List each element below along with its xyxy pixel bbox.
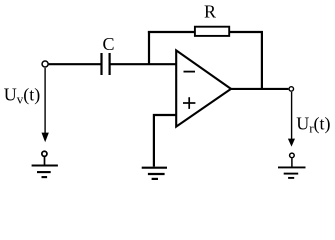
resistor R [195,27,229,36]
wire: feedback top horizontal left segment [148,31,195,33]
wire: output voltage arrow stem [291,92,293,140]
wire: feedback right vertical down to output node [261,31,263,89]
wire: feedback top horizontal right segment [230,31,264,33]
arrowhead (output voltage) [288,139,295,147]
op-amp non-inverting input marker (plus) [183,97,195,109]
svg-text:Uv(t): Uv(t) [4,85,41,107]
wire: input voltage arrow stem [44,68,46,134]
svg-text:R: R [204,1,216,21]
svg-text:C: C [103,34,115,54]
wire: capacitor to op-amp inverting input [111,63,177,65]
capacitor C [102,53,110,75]
wire: feedback left vertical from input node [148,31,150,64]
node: input terminal circle [42,61,48,67]
node: output terminal circle [289,87,294,92]
op-amp inverting input marker (minus) [184,71,196,73]
svg-text:Ur(t): Ur(t) [296,114,330,136]
op-amp U1 [176,50,231,126]
ground (op-amp + input) [142,168,167,179]
wire: non-inverting input to ground [154,115,176,167]
ground (output, with terminal circle) [278,153,306,178]
wire: input terminal to capacitor [49,63,101,65]
arrowhead (input voltage) [42,133,49,143]
ground (input, with terminal circle) [32,151,58,177]
wire: op-amp output to output terminal [231,88,288,90]
